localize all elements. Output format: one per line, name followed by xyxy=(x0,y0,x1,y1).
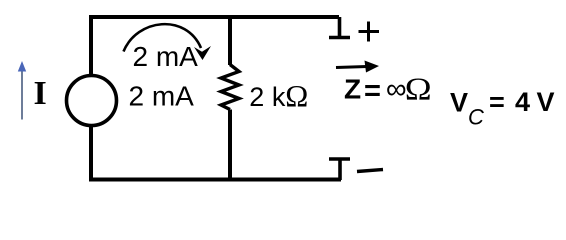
svg-text:2 k: 2 k xyxy=(249,82,286,112)
svg-text:Ω: Ω xyxy=(405,72,432,106)
svg-text:2 mA: 2 mA xyxy=(129,80,195,111)
svg-text:V: V xyxy=(450,88,468,118)
svg-text:=: = xyxy=(489,87,505,117)
svg-text:Ω: Ω xyxy=(285,78,308,113)
svg-text:=: = xyxy=(364,75,381,107)
svg-text:C: C xyxy=(468,105,484,130)
svg-text:4: 4 xyxy=(515,87,530,117)
svg-text:∞: ∞ xyxy=(386,74,407,106)
svg-text:V: V xyxy=(537,87,555,117)
svg-text:2 mA: 2 mA xyxy=(133,41,199,72)
svg-text:Z: Z xyxy=(344,73,361,104)
svg-text:I: I xyxy=(34,75,47,112)
